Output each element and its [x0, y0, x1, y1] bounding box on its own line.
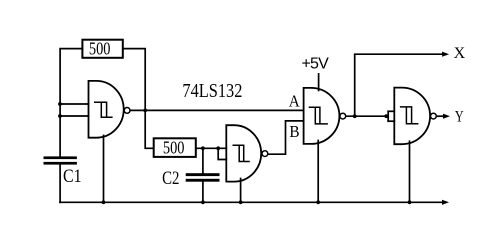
svg-text:B: B	[289, 122, 299, 141]
svg-text:500: 500	[89, 39, 111, 59]
svg-text:X: X	[454, 45, 466, 62]
svg-text:C2: C2	[162, 168, 179, 189]
svg-text:A: A	[289, 91, 301, 110]
svg-text:+5V: +5V	[302, 56, 330, 73]
svg-text:C1: C1	[63, 166, 82, 187]
svg-text:74LS132: 74LS132	[182, 80, 242, 102]
svg-text:Y: Y	[455, 108, 464, 125]
svg-text:500: 500	[163, 138, 185, 158]
